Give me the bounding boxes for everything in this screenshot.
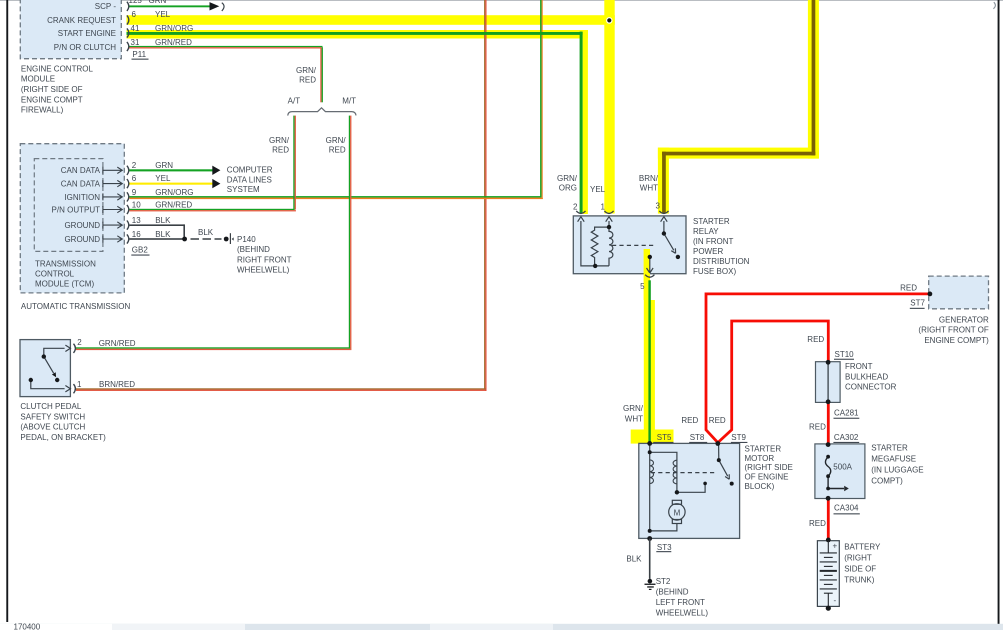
svg-text:125: 125 [129,0,143,5]
svg-text:2: 2 [77,338,82,347]
svg-text:YEL: YEL [155,10,171,19]
svg-text:TRANSMISSION: TRANSMISSION [35,259,96,268]
svg-text:M/T: M/T [342,97,356,106]
svg-text:TRUNK): TRUNK) [844,576,875,585]
svg-text:STARTER: STARTER [693,217,730,226]
svg-text:CLUTCH PEDAL: CLUTCH PEDAL [20,402,81,411]
svg-text:GRN/: GRN/ [296,66,317,75]
svg-text:BRN/: BRN/ [639,174,659,183]
svg-text:STARTER: STARTER [871,443,908,452]
svg-text:POWER: POWER [693,247,723,256]
svg-text:(IN FRONT: (IN FRONT [693,237,734,246]
svg-text:P140: P140 [237,235,256,244]
svg-text:(BEHIND: (BEHIND [656,588,689,597]
svg-text:GRN/RED: GRN/RED [99,339,136,348]
svg-text:-: - [833,596,836,605]
svg-text:ENGINE COMPT): ENGINE COMPT) [924,336,989,345]
svg-text:2: 2 [573,203,578,212]
svg-text:BLOCK): BLOCK) [745,482,775,491]
svg-text:CAN DATA: CAN DATA [61,180,101,189]
svg-text:CRANK REQUEST: CRANK REQUEST [47,16,116,25]
svg-text:GRN/RED: GRN/RED [155,38,192,47]
svg-text:RED: RED [681,416,698,425]
svg-text:P11: P11 [132,50,146,59]
svg-text:SAFETY SWITCH: SAFETY SWITCH [20,412,85,421]
svg-text:WHEELWELL): WHEELWELL) [237,266,290,275]
svg-text:SCP -: SCP - [95,2,117,11]
svg-text:BATTERY: BATTERY [844,543,881,552]
svg-text:LEFT FRONT: LEFT FRONT [656,598,705,607]
svg-text:(RIGHT SIDE: (RIGHT SIDE [745,463,793,472]
svg-text:SYSTEM: SYSTEM [227,185,260,194]
svg-text:RED: RED [809,422,826,431]
svg-text:ST2: ST2 [656,577,671,586]
svg-text:COMPT): COMPT) [871,476,903,485]
svg-text:RED: RED [272,146,289,155]
svg-text:13: 13 [132,216,141,225]
svg-text:SIDE OF: SIDE OF [844,565,876,574]
svg-text:(ABOVE CLUTCH: (ABOVE CLUTCH [20,423,85,432]
svg-text:5: 5 [640,282,645,291]
svg-text:GENERATOR: GENERATOR [939,315,989,324]
svg-text:GRN/: GRN/ [557,174,578,183]
svg-text:BLK: BLK [626,555,642,564]
svg-text:WHEELWELL): WHEELWELL) [656,609,709,618]
svg-text:IGNITION: IGNITION [64,193,100,202]
svg-text:GROUND: GROUND [64,235,100,244]
svg-text:CONNECTOR: CONNECTOR [845,383,897,392]
svg-text:GRN/: GRN/ [623,404,644,413]
svg-text:BULKHEAD: BULKHEAD [845,372,888,381]
svg-text:M: M [674,508,681,517]
svg-text:BLK: BLK [155,216,171,225]
svg-text:BRN/RED: BRN/RED [99,380,135,389]
svg-text:(RIGHT: (RIGHT [844,554,872,563]
svg-text:PEDAL, ON BRACKET): PEDAL, ON BRACKET) [20,433,106,442]
svg-text:(RIGHT SIDE OF: (RIGHT SIDE OF [21,85,83,94]
svg-text:CA302: CA302 [834,433,859,442]
svg-text:CAN DATA: CAN DATA [61,166,101,175]
svg-text:CONTROL: CONTROL [35,269,75,278]
svg-text:2: 2 [132,161,137,170]
svg-text:170400: 170400 [14,622,41,630]
svg-text:MEGAFUSE: MEGAFUSE [871,454,916,463]
svg-text:MODULE: MODULE [21,75,55,84]
svg-text:DISTRIBUTION: DISTRIBUTION [693,257,750,266]
svg-text:OF ENGINE: OF ENGINE [745,473,789,482]
svg-text:ENGINE COMPT: ENGINE COMPT [21,95,83,104]
svg-text:GB2: GB2 [132,246,149,255]
svg-text:9: 9 [132,188,137,197]
svg-text:RED: RED [329,146,346,155]
svg-text:GRN/RED: GRN/RED [155,200,192,209]
svg-text:START ENGINE: START ENGINE [58,29,116,38]
svg-text:6: 6 [132,174,137,183]
svg-text:COMPUTER: COMPUTER [227,166,273,175]
svg-text:500A: 500A [833,463,852,472]
svg-text:WHT: WHT [640,184,658,193]
svg-text:(IN LUGGAGE: (IN LUGGAGE [871,465,923,474]
svg-text:41: 41 [131,24,140,33]
svg-text:MODULE (TCM): MODULE (TCM) [35,279,94,288]
svg-text:GRN: GRN [155,161,173,170]
svg-text:AUTOMATIC TRANSMISSION: AUTOMATIC TRANSMISSION [21,302,131,311]
svg-text:RELAY: RELAY [693,227,719,236]
svg-text:31: 31 [131,38,140,47]
svg-text:ST3: ST3 [657,543,672,552]
svg-text:MOTOR: MOTOR [745,454,775,463]
svg-text:3: 3 [656,202,661,211]
svg-text:GROUND: GROUND [64,221,100,230]
svg-text:6: 6 [132,10,137,19]
svg-text:RED: RED [807,335,824,344]
svg-text:A/T: A/T [288,97,301,106]
svg-text:FUSE BOX): FUSE BOX) [693,267,736,276]
svg-text:FRONT: FRONT [845,362,873,371]
svg-text:YEL: YEL [155,174,171,183]
svg-text:ST5: ST5 [657,433,672,442]
svg-text:ST9: ST9 [731,433,746,442]
svg-text:GRN: GRN [149,0,167,5]
svg-text:ORG: ORG [559,184,577,193]
svg-text:WHT: WHT [625,415,643,424]
svg-text:ST10: ST10 [835,350,855,359]
svg-text:10: 10 [132,200,141,209]
svg-text:GRN/ORG: GRN/ORG [155,24,193,33]
svg-text:1: 1 [601,203,606,212]
svg-text:ST8: ST8 [690,433,705,442]
svg-text:RED: RED [809,519,826,528]
svg-text:P/N OR CLUTCH: P/N OR CLUTCH [54,43,116,52]
svg-text:CA281: CA281 [834,408,859,417]
svg-text:GRN/: GRN/ [269,136,290,145]
svg-text:YEL: YEL [590,185,606,194]
svg-text:P/N OUTPUT: P/N OUTPUT [52,205,101,214]
svg-text:RIGHT FRONT: RIGHT FRONT [237,255,292,264]
svg-text:DATA LINES: DATA LINES [227,175,272,184]
svg-text:(BEHIND: (BEHIND [237,245,270,254]
svg-text:STARTER: STARTER [745,444,782,453]
svg-text:CA304: CA304 [834,504,859,513]
svg-text:GRN/ORG: GRN/ORG [155,188,193,197]
svg-text:16: 16 [132,230,141,239]
svg-text:BLK: BLK [155,230,171,239]
svg-text:1: 1 [77,380,82,389]
svg-text:ENGINE CONTROL: ENGINE CONTROL [21,64,94,73]
svg-text:FIREWALL): FIREWALL) [21,106,64,115]
svg-text:ST7: ST7 [910,299,925,308]
svg-text:+: + [832,542,837,551]
svg-text:RED: RED [299,75,316,84]
svg-text:(RIGHT FRONT OF: (RIGHT FRONT OF [918,326,988,335]
svg-text:RED: RED [709,416,726,425]
svg-text:RED: RED [900,284,917,293]
svg-text:BLK: BLK [198,228,214,237]
svg-text:GRN/: GRN/ [326,136,347,145]
